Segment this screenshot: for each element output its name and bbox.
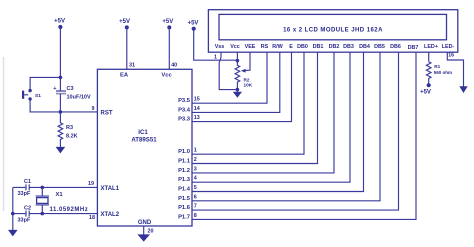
svg-text:1: 1 <box>214 55 217 61</box>
svg-text:11.0592MHz: 11.0592MHz <box>50 207 89 213</box>
wire VEE to R2 wiper <box>243 53 250 71</box>
svg-text:31: 31 <box>129 63 135 69</box>
svg-text:C2: C2 <box>24 206 31 212</box>
svg-text:18: 18 <box>89 215 95 221</box>
node crystal top junction <box>41 186 45 190</box>
wire DB3 to P1.3 <box>192 53 350 183</box>
svg-text:Vss: Vss <box>215 44 225 50</box>
wire E to P3.3 <box>192 53 292 122</box>
svg-text:VEE: VEE <box>245 44 256 50</box>
wire DB1 to P1.1 <box>192 53 318 164</box>
wire branch to switch S1 <box>30 77 60 89</box>
svg-text:13: 13 <box>194 115 200 121</box>
svg-text:P1.7: P1.7 <box>178 214 190 220</box>
svg-text:15: 15 <box>194 97 200 103</box>
svg-text:R1: R1 <box>434 64 440 69</box>
svg-text:R3: R3 <box>66 125 73 131</box>
svg-text:DB4: DB4 <box>359 44 370 50</box>
svg-text:+5V: +5V <box>119 19 130 25</box>
svg-text:1: 1 <box>194 148 197 154</box>
svg-text:S1: S1 <box>35 93 41 99</box>
wire DB6 to P1.6 <box>192 53 399 211</box>
svg-text:DB2: DB2 <box>329 44 340 50</box>
power +5V supply (LCD) <box>192 27 196 31</box>
wire LED- to ground <box>447 53 463 87</box>
svg-text:560 ohm: 560 ohm <box>434 70 452 75</box>
wire faint scan artifact left edge <box>3 57 5 211</box>
svg-text:P1.1: P1.1 <box>178 159 191 165</box>
svg-text:C3: C3 <box>67 86 74 92</box>
svg-text:RS: RS <box>261 44 269 50</box>
power +5V supply (backlight) <box>427 83 431 87</box>
node crystal bottom junction <box>41 212 45 216</box>
svg-text:P1.3: P1.3 <box>178 177 191 183</box>
switch S1 (pushbutton) <box>28 89 31 92</box>
svg-text:16: 16 <box>448 52 454 58</box>
svg-text:2: 2 <box>194 157 197 163</box>
svg-text:X1: X1 <box>56 192 64 198</box>
svg-text:DB5: DB5 <box>374 44 385 50</box>
svg-text:33pF: 33pF <box>18 217 31 223</box>
wire +5V rail to LCD Vcc <box>194 29 238 61</box>
wire R/W to P3.4 <box>192 53 280 113</box>
node C2 left junction <box>11 212 15 216</box>
power +5V supply (EA pin) <box>125 25 129 29</box>
capacitor C3 <box>56 90 66 92</box>
svg-text:E: E <box>289 44 293 50</box>
svg-text:+5V: +5V <box>162 19 173 25</box>
ground below crystal caps <box>8 230 18 237</box>
svg-text:+5V: +5V <box>54 19 65 25</box>
wire Vcc pin stub <box>236 53 238 61</box>
svg-text:6: 6 <box>194 194 197 200</box>
wire DB0 to P1.0 <box>192 53 304 155</box>
ground below R3 <box>56 147 66 154</box>
svg-text:19: 19 <box>88 181 94 187</box>
svg-text:LED-: LED- <box>442 44 455 50</box>
capacitor C2 <box>26 211 29 217</box>
svg-text:Vcc: Vcc <box>161 72 172 78</box>
LCD module inner display box <box>219 14 447 39</box>
wire RS to P3.5 <box>192 53 267 104</box>
svg-text:P1.0: P1.0 <box>178 149 190 155</box>
svg-text:10uF/10V: 10uF/10V <box>67 95 91 101</box>
svg-text:P1.4: P1.4 <box>178 187 191 193</box>
svg-text:7: 7 <box>194 204 197 210</box>
wire DB7 to P1.7 <box>192 53 416 220</box>
svg-text:9: 9 <box>92 106 95 112</box>
wire DB2 to P1.2 <box>192 53 334 173</box>
R2 wiper arrowhead <box>241 69 246 73</box>
wire +5V to Vcc pin 40 <box>168 27 170 69</box>
svg-text:AT89S51: AT89S51 <box>131 136 157 143</box>
svg-text:P1.2: P1.2 <box>178 168 190 174</box>
node Vcc/R2 junction <box>236 59 240 63</box>
power +5V supply (reset circuit) <box>58 25 62 29</box>
svg-text:40: 40 <box>171 63 177 69</box>
svg-text:DB0: DB0 <box>297 44 308 50</box>
power +5V supply (Vcc pin) <box>167 25 171 29</box>
potentiometer R2 <box>235 61 240 90</box>
svg-text:5: 5 <box>194 185 197 191</box>
resistor R1 <box>426 62 431 85</box>
svg-text:EA: EA <box>120 72 129 78</box>
svg-text:R/W: R/W <box>272 44 283 50</box>
svg-text:DB7: DB7 <box>408 45 419 51</box>
svg-text:+5V: +5V <box>188 21 199 27</box>
wire DB4 to P1.4 <box>192 53 364 192</box>
svg-text:P3.4: P3.4 <box>178 107 191 113</box>
svg-text:4: 4 <box>194 176 197 182</box>
crystal X1 <box>36 187 49 213</box>
wire +5V to EA pin 31 <box>126 27 128 69</box>
svg-text:8: 8 <box>194 213 197 219</box>
IC1 microcontroller AT89S51 box <box>97 69 192 226</box>
wire XTAL1 net <box>13 186 98 188</box>
svg-text:3: 3 <box>194 166 197 172</box>
resistor R3 <box>58 112 63 147</box>
ground below LED- <box>459 86 467 93</box>
svg-text:P3.3: P3.3 <box>178 117 191 123</box>
wire GND pin 20 stub <box>143 226 145 235</box>
svg-text:16 x 2 LCD MODULE JHD 162A: 16 x 2 LCD MODULE JHD 162A <box>283 28 383 34</box>
svg-text:20: 20 <box>148 228 154 234</box>
ground below IC1 <box>137 234 150 241</box>
wire capacitor common leg <box>12 187 14 230</box>
svg-text:DB1: DB1 <box>313 44 324 50</box>
svg-text:Vcc: Vcc <box>230 44 240 50</box>
svg-text:P1.5: P1.5 <box>178 196 191 202</box>
svg-text:P3.5: P3.5 <box>178 98 191 104</box>
svg-text:C1: C1 <box>24 179 31 185</box>
wire C3 bottom to RST rail <box>59 94 61 112</box>
svg-text:XTAL1: XTAL1 <box>101 186 120 192</box>
wire +5V down to reset node <box>59 27 61 91</box>
svg-text:DB3: DB3 <box>343 44 354 50</box>
svg-text:14: 14 <box>194 106 200 112</box>
svg-text:LED+: LED+ <box>424 44 438 50</box>
svg-text:XTAL2: XTAL2 <box>101 212 120 218</box>
svg-text:P1.6: P1.6 <box>178 205 191 211</box>
wire DB5 to P1.5 <box>192 53 380 201</box>
ground below R2 <box>236 90 238 92</box>
svg-text:DB6: DB6 <box>390 44 401 50</box>
svg-text:10K: 10K <box>244 82 253 87</box>
svg-text:+5V: +5V <box>420 90 431 96</box>
wire LED+ pin stub <box>428 53 430 62</box>
svg-text:IC1: IC1 <box>138 129 148 136</box>
svg-text:8.2K: 8.2K <box>66 133 78 139</box>
wire XTAL2 net <box>13 213 98 215</box>
svg-text:GND: GND <box>138 220 152 226</box>
LCD module outer box <box>208 10 457 53</box>
svg-text:33pF: 33pF <box>18 191 31 197</box>
node S1/C3 top junction <box>59 76 63 80</box>
capacitor C1 <box>26 184 29 190</box>
node R2 bottom junction <box>236 88 240 92</box>
wire S1 bottom to RST rail <box>30 100 97 112</box>
svg-text:RST: RST <box>101 110 113 116</box>
wire Vss pin stub with hop over +5V line <box>219 53 237 90</box>
node RST junction <box>59 110 63 114</box>
